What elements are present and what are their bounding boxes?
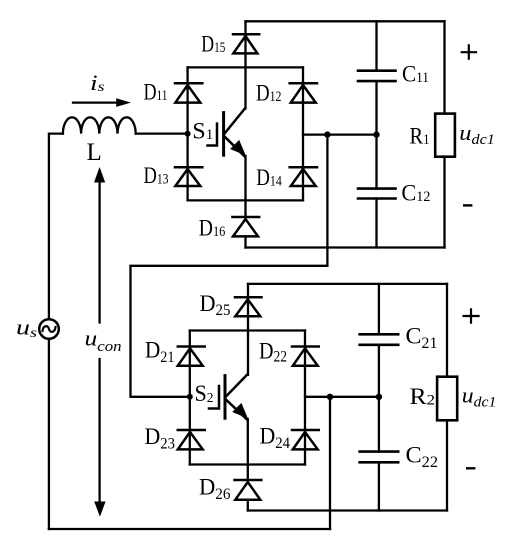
inductor L bbox=[63, 117, 136, 133]
wire bridge bottom edge upper bbox=[188, 199, 303, 201]
measurement arrow u_con bbox=[94, 167, 106, 517]
svg-text:D22: D22 bbox=[259, 338, 287, 365]
diode D24 bbox=[292, 430, 319, 449]
wire load branch upper bbox=[443, 21, 445, 247]
wire capacitor branch lower bbox=[378, 284, 380, 511]
svg-text:R1: R1 bbox=[410, 124, 430, 149]
svg-text:C22: C22 bbox=[406, 443, 438, 472]
svg-text:D23: D23 bbox=[145, 424, 176, 453]
diode D22 bbox=[292, 347, 319, 366]
wire S2 emitter to D26 bbox=[247, 419, 249, 480]
wire bridge top edge upper bbox=[188, 66, 303, 68]
svg-text:is: is bbox=[90, 70, 105, 95]
svg-text:D24: D24 bbox=[260, 423, 291, 452]
diode D12 bbox=[290, 83, 317, 102]
svg-text:S1: S1 bbox=[192, 118, 213, 143]
svg-text:S2: S2 bbox=[195, 381, 214, 406]
wire capacitor branch upper bbox=[375, 21, 377, 247]
svg-text:C12: C12 bbox=[401, 180, 430, 205]
svg-text:us: us bbox=[16, 315, 38, 342]
capacitor C21 bbox=[360, 334, 399, 345]
label plus lower bbox=[464, 309, 479, 322]
wire bottom rail upper cell bbox=[246, 246, 445, 248]
diode D16 bbox=[232, 217, 259, 236]
svg-text:ucon: ucon bbox=[85, 325, 122, 355]
capacitor C22 bbox=[360, 452, 399, 463]
wire bridge right leg lower bbox=[304, 331, 306, 465]
diode D11 bbox=[175, 83, 202, 102]
AC source u_s bbox=[39, 319, 59, 339]
wire D25 branch column bbox=[247, 284, 249, 375]
wire source top to inductor left lead bbox=[49, 134, 63, 320]
wire bottom return rail bbox=[49, 528, 330, 530]
current arrow i_s bbox=[73, 98, 131, 107]
wire bridge left leg lower bbox=[189, 331, 191, 465]
label minus upper bbox=[464, 204, 471, 206]
svg-text:D15: D15 bbox=[201, 31, 225, 56]
diode D21 bbox=[178, 347, 205, 366]
svg-text:D25: D25 bbox=[200, 291, 231, 319]
resistor R2 bbox=[437, 377, 457, 421]
svg-text:D26: D26 bbox=[199, 474, 231, 503]
svg-text:udc1: udc1 bbox=[462, 382, 497, 410]
diode D26 bbox=[235, 480, 262, 500]
wire top rail lower cell bbox=[248, 283, 447, 285]
resistor R1 bbox=[435, 114, 455, 157]
node midpoint lower bbox=[327, 394, 333, 400]
node capacitor midpoint upper bbox=[373, 131, 379, 137]
wire D26 to bottom rail bbox=[247, 500, 249, 511]
node midpoint upper bbox=[324, 131, 330, 137]
wire bridge bottom edge lower bbox=[190, 463, 305, 465]
svg-text:L: L bbox=[87, 139, 102, 166]
svg-text:R2: R2 bbox=[410, 384, 436, 409]
svg-text:D16: D16 bbox=[199, 216, 226, 241]
diode D14 bbox=[290, 167, 317, 186]
diode D23 bbox=[178, 430, 205, 449]
capacitor C11 bbox=[358, 71, 396, 81]
wire load branch lower bbox=[446, 284, 448, 511]
svg-text:D21: D21 bbox=[145, 338, 175, 367]
IGBT S1 bbox=[208, 109, 246, 157]
svg-text:D12: D12 bbox=[256, 81, 282, 106]
capacitor C12 bbox=[358, 189, 396, 199]
svg-text:udc1: udc1 bbox=[459, 120, 495, 148]
wire cell link (upper midpoint to lower input) bbox=[131, 135, 328, 397]
wire lower midpoint down to return rail bbox=[329, 397, 331, 529]
wire bridge midpoint to capacitor leg upper bbox=[303, 133, 377, 135]
wire bottom rail lower cell bbox=[248, 509, 447, 511]
node input upper bbox=[185, 131, 191, 137]
IGBT S2 bbox=[209, 374, 248, 419]
wire inductor to input node bbox=[136, 132, 188, 134]
svg-text:C11: C11 bbox=[402, 62, 429, 87]
node capacitor midpoint lower bbox=[376, 394, 382, 400]
wire bridge top edge lower bbox=[190, 329, 305, 331]
diode D25 bbox=[235, 297, 262, 316]
wire S1 emitter to D16 bbox=[244, 156, 246, 217]
label minus lower bbox=[467, 467, 474, 469]
svg-text:C21: C21 bbox=[406, 324, 438, 353]
label plus upper bbox=[462, 45, 476, 58]
wire bridge right leg upper bbox=[302, 67, 304, 200]
wire D15 branch column bbox=[244, 21, 246, 108]
wire top rail upper cell bbox=[246, 20, 445, 22]
svg-text:D14: D14 bbox=[256, 165, 282, 190]
wire bridge left leg upper bbox=[186, 67, 188, 200]
wire bridge midpoint to capacitor leg lower bbox=[305, 396, 379, 398]
wire source bottom down to return rail bbox=[48, 339, 50, 529]
wire D16 to bottom rail bbox=[244, 236, 246, 247]
node input lower bbox=[187, 394, 193, 400]
diode D15 bbox=[233, 34, 259, 53]
svg-text:D13: D13 bbox=[144, 163, 169, 188]
svg-text:D11: D11 bbox=[144, 80, 168, 105]
diode D13 bbox=[175, 167, 202, 186]
